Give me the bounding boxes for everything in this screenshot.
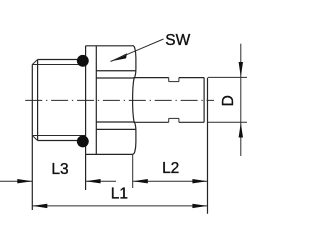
D extension line top — [208, 76, 247, 78]
D arrow bottom — [239, 123, 243, 138]
L1 arrow left — [32, 204, 47, 208]
plug body bottom edge — [179, 121, 204, 123]
hex top edge — [86, 45, 133, 47]
L1 dimension line — [32, 205, 207, 207]
o-ring dot top — [77, 55, 89, 67]
svg-text:L3: L3 — [51, 161, 68, 178]
plug collar bottom edge — [134, 121, 169, 123]
thread outer line top — [38, 59, 86, 61]
thread root line bottom — [32, 135, 85, 137]
D arrow top — [239, 62, 243, 77]
L2 arrow left — [133, 179, 148, 183]
plug end face + D extension — [207, 78, 209, 214]
plug body top edge — [179, 77, 204, 79]
L2 arrow right — [192, 179, 207, 183]
groove right wall top — [178, 78, 180, 82]
hex flat line upper1 — [96, 70, 135, 72]
thread chamfer diagonal bottom — [32, 136, 37, 141]
thread root line top — [32, 64, 85, 66]
SW leader arrowhead — [110, 53, 127, 61]
L3 arrow left (outside, pointing right) — [17, 179, 32, 183]
o-ring dot bottom — [77, 135, 89, 147]
L3 arrow right (outside, pointing left) — [86, 179, 101, 183]
hex left face + L3 right extension line — [85, 46, 87, 190]
centerline — [25, 99, 214, 101]
groove bottom top — [169, 81, 179, 83]
hex bottom edge — [86, 153, 133, 155]
groove left wall bottom — [168, 118, 170, 122]
svg-text:L1: L1 — [111, 186, 128, 203]
L1 arrow right — [192, 204, 207, 208]
L2 dimension line — [133, 180, 208, 182]
L3 dimension line left tail — [0, 180, 32, 182]
plug nose chamfer vertical — [203, 78, 205, 123]
groove right wall bottom — [178, 118, 180, 122]
L2 left extension line — [132, 154, 134, 188]
SW leader line — [111, 39, 164, 62]
svg-text:D: D — [220, 95, 237, 106]
hex flat line upper2 — [96, 77, 134, 79]
thread chamfer diagonal top — [32, 60, 37, 65]
hex flat line lower1 — [96, 121, 134, 123]
hex flat line lower2 — [96, 128, 135, 130]
L3 right tail — [86, 180, 116, 182]
D extension line bottom — [208, 121, 247, 123]
thread end face + L1/L3 left extension line — [31, 65, 33, 211]
thread chamfer vertical — [37, 60, 39, 141]
hex right silhouette — [132, 46, 136, 155]
svg-text:SW: SW — [165, 32, 190, 49]
groove left wall top — [168, 78, 170, 82]
thread outer line bottom — [38, 140, 86, 142]
plug collar top edge — [134, 77, 169, 79]
hex inner vertical — [95, 46, 97, 155]
D dimension line — [240, 44, 242, 156]
svg-text:L2: L2 — [162, 160, 179, 177]
groove top bottom — [169, 117, 179, 119]
